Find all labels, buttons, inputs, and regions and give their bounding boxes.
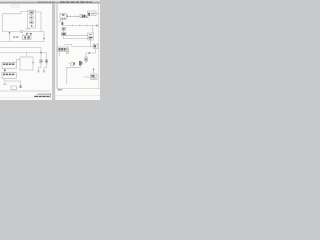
wire [90,40,92,47]
wire bus [62,25,97,27]
label text [86,16,89,19]
relay K2 [87,11,96,16]
resistor R1 [22,35,31,39]
header text in band [38,1,54,4]
top light row [0,0,100,1]
switch S1 [30,21,33,24]
wire [28,33,31,35]
splice S [93,69,94,70]
connector C5 [58,47,69,53]
wire [86,49,96,58]
connector speck [67,15,68,17]
wire [64,36,88,39]
wire [61,20,63,23]
motor M [30,16,34,20]
junction dot [9,32,11,33]
connector C3 [2,73,16,79]
wire [23,31,44,33]
wire [96,13,99,15]
wire [3,31,20,33]
label text [13,36,18,37]
connector C4 [11,86,16,89]
node A [9,32,11,42]
left page (sheet 1) [0,4,52,100]
fuse F3 [61,22,63,25]
junction ticks [72,25,88,26]
wire [0,32,44,42]
note label [12,5,20,7]
ground G2 [19,81,22,88]
sheet border frame [57,4,100,89]
relay K3 [93,44,98,49]
fusible link F4 [80,14,83,17]
title block bar [37,94,51,95]
diode D1 [26,33,32,35]
wire [72,46,93,48]
wire bus ACC [0,52,47,54]
wire [92,26,94,34]
coil L1 [62,33,66,36]
label [43,38,44,39]
switch S3 [68,62,74,65]
junction arrow [4,69,6,73]
faint rule [0,97,34,99]
wire bus B+ [0,47,41,49]
fuse F2 [43,60,48,73]
pump P1 [79,61,83,65]
junction dot [40,52,41,53]
title block text [34,96,49,97]
pin tick [33,62,34,63]
module U2 [88,33,94,40]
wire [17,59,21,61]
control unit M1 [27,10,35,28]
footer text [58,89,62,90]
wire [26,34,28,37]
wire [36,12,41,32]
splice ticks [70,16,78,17]
wire [16,60,18,63]
faint rule [55,95,100,97]
junction box J1 [20,57,33,70]
wire [59,52,61,57]
right page (sheet 2) [55,4,100,100]
wire [93,70,95,74]
wire [63,30,65,32]
ignition switch S2 [60,14,66,20]
title block edge [50,93,52,98]
top gray toolbar band [0,0,100,3]
resistor R2 [85,57,88,64]
wire [40,48,42,60]
wire [21,12,28,14]
capacitor C1 [20,30,22,32]
wire [66,35,88,37]
wire [67,65,80,84]
ground G1 [3,81,7,84]
wire [46,53,48,60]
pin 3 [31,25,33,27]
transistor Q1 [62,27,66,30]
background [0,0,100,100]
wire [84,76,91,78]
wire bus GND [0,90,51,92]
junction dot [89,52,90,53]
toolbar band lower edge [0,2,100,5]
wire [64,45,72,47]
wire [25,28,30,30]
battery B1 [83,15,86,18]
fuse F1 [37,60,42,73]
wire [61,24,63,27]
bus end tick [96,25,97,27]
relay K1 [29,11,34,14]
connector C2 [2,63,16,69]
wire [3,14,21,32]
wire [26,53,28,58]
wire [66,15,80,17]
wire [58,20,61,22]
wire [5,79,21,82]
wire [86,15,87,17]
module U3 [91,74,98,80]
